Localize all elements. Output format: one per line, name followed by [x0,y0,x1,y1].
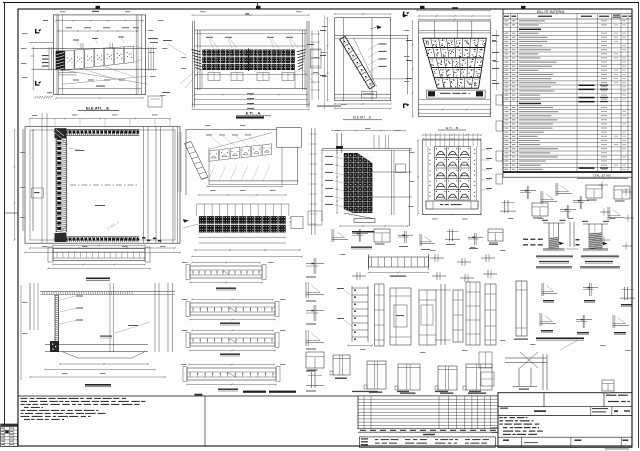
drawing I label [85,384,111,387]
beam J4 [183,364,280,391]
drawing K beam with panel band [183,186,303,258]
drawing D diagonal brace elevation [320,13,409,371]
micro dimension labels [20,11,631,374]
drawing B label [236,112,271,116]
connection detail R5 [306,352,324,372]
connection detail R1 [306,258,324,278]
svg-text:ELE.ATI.. ..E.: ELE.ATI.. ..E. [353,116,372,120]
svg-text:.E.TI.. ..B.: .E.TI.. ..B. [445,126,459,130]
beam J1 [186,262,266,290]
drawing F dense panel elevation [321,130,412,227]
far right edge glyphs [598,182,634,250]
bolt dash marks [523,239,580,246]
drawing D label [343,116,382,120]
plot stamp text [605,448,629,449]
connection detail R3 [306,305,324,325]
connection detail R6 [306,372,324,392]
drawing C label [438,126,466,130]
bill of material table [503,9,632,178]
ladder detail [337,286,373,346]
between member [566,222,578,249]
plate glyph row 1 [542,283,635,306]
tall member detail 7 [485,284,496,345]
base plate detail 5 [330,355,350,379]
tall member detail 1 [375,284,385,346]
tall member detail 2 [390,288,411,345]
drawing G large plan [14,113,181,253]
hatched column detail 1 [542,220,566,251]
column detail between drawings [308,128,322,235]
detail group N top-left [332,229,503,250]
sheet zone marks [5,3,526,214]
right edge small detail [602,380,614,394]
base plate detail 2 [395,364,420,394]
tall plate detail [514,281,528,340]
revision history strip [352,391,498,448]
svg-text:.E.TI.. ..A.: .E.TI.. ..A. [245,112,261,116]
hatched column detail 2 [582,221,609,251]
drawing I lower-left plan [21,283,175,380]
base plate detail 1 [364,361,386,393]
tall member detail 3 [419,290,436,345]
base plate detail 3 [435,366,457,394]
bottom-right corner details [505,340,578,390]
beam J3 [186,330,279,356]
gap details left of title block [479,352,494,386]
miscellaneous marks [148,15,503,184]
drawing E panel grid with arcs [417,133,492,215]
misc H glyphs [352,254,497,282]
svg-text:T.TAL .ET WT.: T.TAL .ET WT. [593,174,612,178]
tall member detail 5 [453,290,463,342]
title block [492,393,632,448]
beam detail L-1 [47,245,151,270]
tall member detail 6 [466,282,480,345]
connection detail R4 [306,330,324,350]
detail labels stack [536,256,620,269]
beam L-1 label [86,278,110,281]
base plate detail 4 [463,364,492,394]
drawing F label [352,231,374,233]
drawing C top-right panel elevation [403,7,499,117]
right zone small details [500,183,630,220]
general notes text [18,391,358,446]
drawing A top-left elevation [29,11,157,99]
rack beam detail [368,254,430,277]
tall member detail 4 [435,284,451,345]
drawing L label [236,116,264,118]
drawing L sloped panel plan [178,128,301,195]
bottom label row [536,338,584,341]
beam J2 [186,299,279,325]
svg-text:ELE.ATI.. ..E.: ELE.ATI.. ..E. [86,105,110,110]
plate glyph row 2 [540,313,629,334]
drawing A label [78,105,120,110]
connection detail R2 [306,282,324,302]
drawing B top-center elevation [180,13,315,110]
revision mini table [1,424,18,447]
